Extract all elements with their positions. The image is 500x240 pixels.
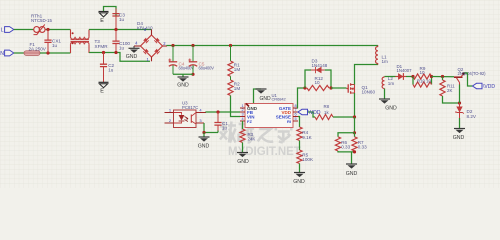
node R9 right	[430, 75, 433, 78]
power port VDD at U1	[298, 112, 315, 117]
svg-text:GND: GND	[293, 179, 305, 185]
node zener	[458, 101, 461, 104]
svg-text:2K: 2K	[447, 88, 452, 93]
U1 pin 3 VIN	[240, 116, 245, 118]
connector L	[5, 27, 14, 33]
thermistor RTh1	[34, 27, 40, 33]
ground R6/R7	[346, 163, 357, 165]
svg-text:1N4007: 1N4007	[397, 68, 413, 73]
wire	[325, 70, 331, 88]
svg-text:PC817C: PC817C	[182, 105, 198, 110]
bridge pin 2 right	[163, 45, 168, 47]
wire	[351, 152, 353, 164]
ground at bridge pin 4	[133, 46, 135, 48]
choke T3 winding top	[70, 30, 72, 37]
node C1	[216, 110, 219, 113]
svg-text:2A 250V: 2A 250V	[29, 46, 47, 51]
node L-CX1	[46, 28, 49, 31]
U1 pin 7 VDD	[293, 111, 298, 113]
resistor R3	[242, 121, 244, 129]
U1 pin 5 RI	[293, 120, 298, 122]
resistor R1	[230, 46, 232, 62]
svg-text:68u400V: 68u400V	[199, 66, 215, 71]
opto pin 3	[196, 122, 204, 124]
wire	[299, 164, 301, 173]
wire R8 to source	[333, 116, 355, 118]
connector N	[5, 50, 14, 56]
inductor L2 aux winding	[384, 76, 386, 79]
opto pin 4	[196, 112, 206, 114]
capacitor C2	[103, 53, 105, 64]
wire C4-C5 join	[173, 74, 193, 77]
bridge rectifier D4	[141, 35, 163, 57]
U1 pin 4 FZ	[240, 120, 245, 122]
transistor Q1 10N60	[347, 83, 351, 94]
wire N rail	[89, 53, 150, 62]
opto light arrows	[185, 117, 188, 122]
wire Q1 drain	[355, 65, 379, 85]
svg-text:L: L	[1, 28, 4, 34]
wire	[14, 29, 33, 31]
capacitor C100	[115, 30, 117, 41]
wire opto emitter to gnd	[204, 123, 218, 133]
svg-text:10: 10	[315, 80, 321, 85]
resistor R9	[413, 74, 432, 79]
node R11 tap	[441, 75, 444, 78]
svg-text:1u: 1u	[108, 67, 114, 72]
wire	[299, 141, 301, 151]
wire	[40, 52, 71, 54]
node C4	[171, 44, 174, 47]
svg-text:0.33: 0.33	[358, 145, 367, 150]
resistor R10	[412, 77, 414, 85]
svg-text:1m: 1m	[388, 81, 395, 86]
svg-text:1M: 1M	[234, 67, 241, 72]
svg-text:GND: GND	[385, 106, 397, 112]
bridge pin 4 left	[134, 45, 141, 47]
inductor L1 primary	[377, 46, 379, 47]
ground C4/C5	[178, 76, 189, 78]
svg-text:1m: 1m	[382, 59, 389, 64]
wire R6/R7 join	[338, 150, 355, 153]
svg-text:GND: GND	[177, 83, 189, 89]
wire L rail	[89, 29, 152, 31]
U1 pin 2 FB	[240, 111, 245, 113]
ground opto/C1	[199, 136, 210, 138]
svg-text:R8: R8	[324, 104, 330, 109]
wire Q2 collector	[459, 85, 461, 104]
wire gate to Q1	[331, 87, 347, 89]
svg-text:GND: GND	[198, 144, 210, 150]
wire	[354, 117, 356, 133]
svg-text:1N4148: 1N4148	[312, 63, 328, 68]
resistor R12	[307, 85, 329, 90]
svg-text:GND: GND	[237, 159, 249, 165]
wire	[406, 76, 413, 78]
ground R3	[237, 152, 248, 154]
choke T3 winding bottom	[70, 44, 72, 53]
wire	[432, 76, 455, 78]
wire R2 to VIN	[231, 96, 241, 117]
U1 pin 1 GND	[240, 107, 245, 109]
op-amp U1 CR6842 body	[245, 104, 293, 128]
wire R11 to zener	[443, 96, 460, 103]
ground R4/R5	[294, 172, 305, 174]
svg-text:1u: 1u	[119, 17, 125, 22]
node D3 left	[303, 86, 306, 89]
node sense bottom	[353, 150, 356, 153]
svg-text:GND: GND	[259, 96, 271, 102]
wire	[14, 52, 24, 54]
fuse F1	[24, 51, 40, 56]
capacitor CX1	[47, 30, 49, 40]
bridge pin 1 bottom	[151, 57, 153, 61]
svg-text:24K: 24K	[248, 136, 256, 141]
node R1	[229, 44, 232, 47]
wire	[459, 118, 461, 129]
svg-text:GND: GND	[346, 171, 358, 177]
svg-text:7: 7	[294, 108, 296, 112]
svg-text:8.2V: 8.2V	[467, 114, 477, 119]
resistor R11	[442, 77, 444, 81]
node sense top	[353, 131, 356, 134]
wire	[46, 29, 71, 31]
ground D2	[454, 128, 465, 130]
capacitor C5	[192, 46, 194, 62]
svg-text:5: 5	[294, 117, 296, 121]
svg-text:10: 10	[420, 70, 426, 75]
svg-text:NTC5D-15: NTC5D-15	[31, 18, 53, 23]
svg-text:1u: 1u	[119, 45, 125, 50]
opto pin 2	[165, 122, 174, 124]
wire Q2 emitter to VDD	[465, 73, 473, 86]
svg-text:E: E	[100, 18, 104, 24]
svg-text:6: 6	[294, 112, 296, 116]
optocoupler U3 PC817C	[174, 110, 197, 128]
earth ground E2	[99, 81, 109, 83]
earth ground E1	[99, 11, 109, 13]
svg-text:\VDD: \VDD	[483, 84, 495, 90]
opto pin 1	[165, 112, 174, 114]
ground L2	[379, 98, 390, 100]
node N-CX1	[46, 51, 49, 54]
capacitor C4	[172, 46, 174, 62]
svg-text:2N3904(TO-92): 2N3904(TO-92)	[458, 71, 487, 76]
wire SENSE to divider	[298, 117, 300, 128]
svg-text:XFMR: XFMR	[95, 44, 109, 49]
resistor R5	[297, 150, 302, 164]
resistor R2	[228, 80, 233, 96]
svg-text:1u: 1u	[222, 125, 228, 130]
node C2	[102, 51, 105, 54]
transistor Q2 2N3904	[454, 76, 463, 78]
wire aux rail	[385, 76, 396, 78]
U1 pin 8 GATE	[293, 107, 298, 109]
wire	[242, 143, 244, 153]
wire to R6	[338, 133, 355, 137]
svg-text:0.33: 0.33	[341, 145, 350, 150]
capacitor C1	[217, 112, 219, 122]
svg-text:GND: GND	[453, 135, 465, 141]
bridge pin 3 top	[151, 30, 153, 36]
wire	[203, 133, 205, 138]
capacitor C3	[104, 7, 117, 16]
svg-text:4: 4	[241, 117, 243, 121]
svg-text:R10 10: R10 10	[417, 79, 431, 84]
U1 pin 6 SENSE	[293, 116, 298, 118]
svg-text:FZ: FZ	[247, 119, 252, 124]
svg-text:2: 2	[241, 108, 243, 112]
resistor R7	[354, 133, 356, 137]
zener diode D2 8.2V	[459, 103, 461, 118]
node C3	[114, 28, 117, 31]
svg-text:68u400V: 68u400V	[179, 66, 195, 71]
svg-text:3: 3	[241, 112, 243, 116]
choke T3 core	[71, 40, 90, 42]
svg-text:CR6842: CR6842	[272, 97, 287, 102]
diode D1 1N4007	[396, 76, 407, 78]
svg-text:GND: GND	[126, 54, 138, 60]
svg-text:100K: 100K	[302, 157, 314, 162]
node C5 bottom	[191, 73, 194, 76]
resistor R4	[297, 127, 302, 141]
wire GATE net	[298, 88, 306, 108]
wire Q1 source	[354, 93, 356, 117]
power port VDD at Q2	[473, 83, 483, 88]
node C100	[114, 51, 117, 54]
opto LED	[174, 113, 182, 124]
svg-text:1k: 1k	[324, 110, 329, 115]
wire	[384, 89, 386, 100]
ground above U1	[254, 89, 262, 104]
watermark	[220, 122, 236, 143]
resistor R6	[335, 137, 340, 151]
wire	[230, 76, 232, 80]
svg-text:1M: 1M	[234, 86, 241, 91]
node opto gnd	[202, 131, 205, 134]
diode D3 1N4148	[311, 69, 325, 71]
svg-text:RI: RI	[287, 119, 291, 124]
svg-text:E: E	[100, 89, 104, 95]
svg-text:10N60: 10N60	[362, 90, 376, 95]
wire FB net	[206, 111, 240, 114]
opto phototransistor	[190, 115, 192, 123]
node C5	[191, 44, 194, 47]
svg-text:1u: 1u	[52, 43, 58, 48]
node R9 left	[411, 75, 414, 78]
node source/R8	[353, 115, 356, 118]
wire	[305, 70, 311, 88]
svg-text:9.1K: 9.1K	[302, 135, 312, 140]
resistor R8	[315, 114, 333, 119]
wire DC+ rail	[167, 45, 378, 48]
node D3 right	[329, 86, 332, 89]
svg-text:N: N	[0, 51, 4, 57]
